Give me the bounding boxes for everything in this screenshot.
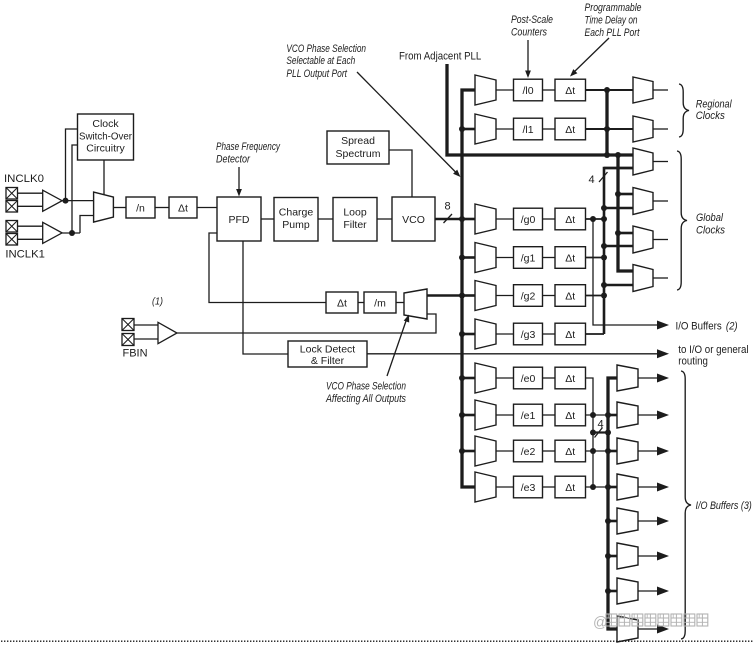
wire counter to delay e0 <box>543 377 556 379</box>
watermark juejin community <box>593 614 708 631</box>
node junction e1 bus <box>590 412 596 418</box>
annotation (1) <box>152 296 163 308</box>
wire counter to delay g0 <box>543 218 556 220</box>
node junction bridge e <box>605 430 611 436</box>
svg-text:/g2: /g2 <box>521 291 536 303</box>
wire global mux2 in a <box>618 193 633 196</box>
svg-text:Global: Global <box>696 212 723 224</box>
input pad INCLK1 p <box>6 221 18 233</box>
loop filter box <box>333 198 377 242</box>
annotation arrow to PFD <box>236 167 242 197</box>
svg-text:Clocks: Clocks <box>696 225 725 237</box>
delay dt-g3 box <box>555 323 586 345</box>
wire mux to counter e1 <box>496 414 514 416</box>
svg-text:Δt: Δt <box>337 298 347 310</box>
svg-text:I/O Buffers: I/O Buffers <box>676 320 723 332</box>
svg-text:4: 4 <box>598 419 604 431</box>
wire dt-l1 to regional mux <box>586 128 634 130</box>
mux global clock 1 <box>633 148 653 175</box>
label 8 phase taps <box>445 201 451 213</box>
arrow io buffer 2 <box>657 411 669 420</box>
svg-text:Post-Scale: Post-Scale <box>511 14 553 26</box>
wire mux to counter g3 <box>496 333 514 335</box>
mux regional clock 2 <box>633 116 653 142</box>
delay dt-g2 box <box>555 285 586 307</box>
wire INCLK1 tap to switch-over <box>72 145 78 233</box>
wire counter to delay l1 <box>543 128 556 130</box>
wire io bus to mux 7 <box>608 590 617 593</box>
wire io mux 5 out <box>638 520 657 522</box>
arrow io buffer 8 <box>657 625 669 634</box>
label I/O Buffers (2) <box>676 320 738 332</box>
bus width slash 8 <box>444 214 453 223</box>
spread spectrum box <box>327 131 389 164</box>
svg-text:Detector: Detector <box>216 154 251 166</box>
svg-text:/e0: /e0 <box>521 373 536 385</box>
svg-text:Phase Frequency: Phase Frequency <box>216 141 281 153</box>
counter /g1 box <box>514 247 543 269</box>
brace regional clocks <box>679 84 689 137</box>
net global 4-bus <box>604 168 633 334</box>
node junction io bus 3 <box>605 448 611 454</box>
svg-text:Circuitry: Circuitry <box>86 143 125 155</box>
wire input mux to /n <box>113 207 126 209</box>
mux io buffer 8 <box>617 616 638 642</box>
svg-text:/e2: /e2 <box>521 446 536 458</box>
wire bus to mux g0 <box>462 218 475 221</box>
delay dt-g1 box <box>555 247 586 269</box>
node junction io bus 7 <box>605 588 611 594</box>
node bus tap g3 <box>459 331 465 337</box>
wire global clock 3 out <box>653 239 668 241</box>
counter /e1 box <box>514 404 543 426</box>
wire global mux3 in a <box>618 232 633 235</box>
svg-text:/n: /n <box>136 203 145 215</box>
wire counter to delay g2 <box>543 295 556 297</box>
mux global clock 4 <box>633 265 653 292</box>
annotation VCO phase selection affecting all outputs <box>325 381 406 406</box>
svg-text:Pump: Pump <box>282 219 310 231</box>
mux io buffer 3 <box>617 438 638 464</box>
svg-text:Clock: Clock <box>92 118 119 130</box>
node junction e2 bus <box>590 448 596 454</box>
counter /l0 box <box>514 79 543 101</box>
svg-text:/m: /m <box>374 298 386 310</box>
label 4 e-section <box>598 419 604 431</box>
arrow io buffer 7 <box>657 587 669 596</box>
svg-text:Clocks: Clocks <box>696 110 725 122</box>
mux first-stage g1 <box>475 243 496 273</box>
mux global clock 3 <box>633 226 653 253</box>
mux first-stage e0 <box>475 363 496 393</box>
mux first-stage e1 <box>475 400 496 430</box>
brace io buffers 3 <box>681 371 691 639</box>
label 4 global <box>589 174 595 186</box>
wire io mux 8 out <box>638 628 657 630</box>
delay dt-e1 box <box>555 404 586 426</box>
svg-text:/g1: /g1 <box>521 253 536 265</box>
feedback pad FBIN p <box>122 319 134 331</box>
mux io buffer 7 <box>617 578 638 604</box>
wire io mux 4 out <box>638 486 657 488</box>
wire bus to mux g1 <box>462 256 475 259</box>
net e 4-bus <box>586 378 594 487</box>
svg-text:Δt: Δt <box>565 329 575 341</box>
svg-text:Spread: Spread <box>341 135 375 147</box>
wire feedback mux to /m <box>396 302 404 304</box>
wire switch-over to input mux select <box>103 160 105 195</box>
op-block PFD U1 <box>217 197 261 241</box>
brace global clocks <box>677 151 687 290</box>
mux regional clock 1 <box>633 77 653 103</box>
label Regional Clocks <box>696 99 732 123</box>
feedback mux <box>404 289 427 319</box>
svg-text:/e1: /e1 <box>521 410 536 422</box>
wire counter to delay e2 <box>543 450 556 452</box>
wire mux to counter g1 <box>496 257 514 259</box>
mux io buffer 1 <box>617 365 638 391</box>
node bus tap l1 <box>459 126 465 132</box>
svg-text:Counters: Counters <box>511 27 547 39</box>
label Global Clocks <box>696 212 725 237</box>
node bus tap g0 <box>459 216 465 222</box>
wire charge pump to loop filter <box>318 218 333 220</box>
arrow io buffer 5 <box>657 517 669 526</box>
wire bus to mux e2 <box>462 450 475 453</box>
counter /g0 box <box>514 208 543 230</box>
svg-text:Δt: Δt <box>565 373 575 385</box>
delay dt-e0 box <box>555 367 586 389</box>
delay dt-in box <box>169 197 197 218</box>
node junction l0 <box>604 87 610 93</box>
node junction bridge w <box>590 430 596 436</box>
node junction g2 4bus <box>601 293 607 299</box>
bus width slash 4 e-section <box>595 428 603 438</box>
svg-text:INCLK1: INCLK1 <box>5 249 45 261</box>
counter /e0 box <box>514 367 543 389</box>
svg-text:Loop: Loop <box>343 207 367 219</box>
svg-text:FBIN: FBIN <box>123 348 148 360</box>
wire mux to counter e3 <box>496 486 514 488</box>
svg-text:I/O Buffers (3): I/O Buffers (3) <box>696 500 753 512</box>
node FBIN label <box>123 348 148 360</box>
wire io bus to mux 3 <box>608 450 617 453</box>
node INCLK0 label <box>4 173 44 185</box>
node bus tap e2 <box>459 448 465 454</box>
charge pump box <box>274 198 318 242</box>
node junction g mux4b <box>601 282 607 288</box>
svg-text:Δt: Δt <box>565 410 575 422</box>
wire e bridge 4 <box>593 431 608 433</box>
svg-text:Selectable at Each: Selectable at Each <box>286 55 355 67</box>
mux global clock 2 <box>633 188 653 215</box>
wire PFD to charge pump <box>261 218 274 220</box>
wire lock detect to routing <box>367 353 657 355</box>
wire dt-e1 cross <box>586 414 618 416</box>
clock switch-over circuitry box <box>78 114 134 160</box>
node junction INCLK1 <box>69 230 75 236</box>
wire bus to mux l1 <box>462 128 475 131</box>
svg-text:to I/O or general: to I/O or general <box>678 344 748 356</box>
input pad INCLK0 p <box>6 188 18 200</box>
wire buffer INCLK0 to input mux <box>62 200 94 202</box>
delay dt-e2 box <box>555 440 586 462</box>
node junction io bus 4 <box>605 484 611 490</box>
svg-text:PFD: PFD <box>229 214 250 226</box>
svg-text:Δt: Δt <box>565 482 575 494</box>
wire counter to delay e3 <box>543 486 556 488</box>
node junction g mux2b <box>601 205 607 211</box>
wire dt-g0 to 4bus <box>586 218 605 220</box>
wire FBIN pad n to buffer <box>134 338 158 340</box>
wire /m to delta-t fb <box>358 302 364 304</box>
counter /n box <box>126 197 155 218</box>
arrow io buffers 2 <box>657 321 669 330</box>
wire dt-e2 cross <box>586 450 618 452</box>
net regional vertical <box>605 90 608 155</box>
wire io bus to mux 4 <box>608 486 617 489</box>
delay dt-l0 box <box>555 79 586 101</box>
svg-text:Δt: Δt <box>565 124 575 136</box>
svg-text:Δt: Δt <box>178 203 188 215</box>
annotation arrow to VCO bus <box>357 72 461 177</box>
mux first-stage l1 <box>475 114 496 144</box>
svg-text:From Adjacent PLL: From Adjacent PLL <box>399 50 481 62</box>
svg-text:Δt: Δt <box>565 291 575 303</box>
wire bus to feedback mux <box>427 294 462 297</box>
wire delta-t fb to PFD <box>209 233 326 303</box>
node bus tap g2 <box>459 293 465 299</box>
wire mux to counter g2 <box>496 295 514 297</box>
svg-text:Lock Detect: Lock Detect <box>300 344 356 356</box>
svg-text:INCLK0: INCLK0 <box>4 173 44 185</box>
wire global clock 1 out <box>653 161 668 163</box>
node junction io bus 5 <box>605 518 611 524</box>
wire loop filter to VCO <box>377 218 392 220</box>
wire pad INCLK0 n to buffer <box>18 205 43 207</box>
input mux <box>94 192 114 222</box>
annotation VCO phase selection selectable <box>286 43 366 80</box>
node INCLK1 label <box>5 249 45 261</box>
wire FBIN to feedback mux <box>177 314 436 333</box>
input pad INCLK0 n <box>6 201 18 213</box>
svg-text:PLL Output Port: PLL Output Port <box>286 68 347 80</box>
node junction regional adjacent <box>604 152 610 158</box>
mux first-stage e3 <box>475 472 496 502</box>
svg-text:Regional: Regional <box>696 99 732 111</box>
wire mux to counter e0 <box>496 377 514 379</box>
node junction g0 io tap <box>590 216 596 222</box>
wire io mux 6 out <box>638 555 657 557</box>
node junction l1 <box>604 126 610 132</box>
node bus tap e1 <box>459 412 465 418</box>
bus VCO 8 phases <box>462 90 475 487</box>
wire /n to delta-t <box>155 207 169 209</box>
bus width slash 4 global <box>599 172 608 182</box>
arrow to I/O or general routing <box>657 349 669 358</box>
svg-text:Δt: Δt <box>565 253 575 265</box>
wire delta-t to PFD <box>197 207 217 209</box>
mux io buffer 4 <box>617 474 638 500</box>
buffer INCLK1 <box>43 222 62 243</box>
svg-text:/g3: /g3 <box>521 329 536 341</box>
wire global clock 2 out <box>653 200 668 202</box>
svg-text:VCO Phase Selection: VCO Phase Selection <box>286 43 366 55</box>
svg-text:routing: routing <box>678 355 708 367</box>
node junction g mux3b <box>601 243 607 249</box>
svg-text:Affecting All Outputs: Affecting All Outputs <box>325 393 406 405</box>
svg-text:/e3: /e3 <box>521 482 536 494</box>
counter /l1 box <box>514 118 543 140</box>
wire io bus to mux 5 <box>608 520 617 523</box>
mux io buffer 6 <box>617 543 638 569</box>
wire io mux 7 out <box>638 590 657 592</box>
svg-text:Programmable: Programmable <box>585 2 642 14</box>
delay dt-fb box <box>326 292 358 313</box>
svg-text:Time Delay on: Time Delay on <box>585 15 638 27</box>
svg-text:Δt: Δt <box>565 446 575 458</box>
wire io mux 3 out <box>638 450 657 452</box>
counter /g3 box <box>514 323 543 345</box>
wire dt-g2 to 4bus <box>586 295 605 297</box>
bus from adjacent PLL <box>447 64 633 155</box>
counter /e3 box <box>514 476 543 498</box>
wire io bus to mux 2 <box>608 414 617 417</box>
svg-text:Switch-Over: Switch-Over <box>79 131 132 143</box>
wire dt-g1 to 4bus <box>586 257 605 259</box>
wire counter to delay e1 <box>543 414 556 416</box>
annotation arrow to /l0 <box>525 40 531 78</box>
wire buffer INCLK1 to step <box>62 232 80 234</box>
wire INCLK0 tap to switch-over <box>66 129 79 201</box>
label to I/O or general routing <box>678 344 748 368</box>
svg-text:(2): (2) <box>726 320 738 332</box>
svg-text:Δt: Δt <box>565 214 575 226</box>
node junction e3 bus <box>590 484 596 490</box>
svg-text:8: 8 <box>445 201 451 213</box>
wire regional clock 1 out <box>653 89 668 91</box>
svg-text:(1): (1) <box>152 296 163 308</box>
wire io mux 1 out <box>638 377 657 379</box>
mux first-stage l0 <box>475 75 496 105</box>
mux first-stage g0 <box>475 204 496 234</box>
feedback pad FBIN n <box>122 334 134 346</box>
mux io buffer 5 <box>617 508 638 534</box>
delay dt-g0 box <box>555 208 586 230</box>
svg-text:Spectrum: Spectrum <box>336 148 381 160</box>
wire counter to delay g1 <box>543 257 556 259</box>
oscillator VCO box <box>392 197 435 241</box>
annotation arrow to dt /l0 <box>570 38 609 77</box>
wire global mux4 in b <box>604 284 633 287</box>
wire PFD to lock detect <box>243 241 288 354</box>
wire pad INCLK1 n to buffer <box>18 238 43 240</box>
wire pad INCLK1 p to buffer <box>18 225 43 227</box>
wire dt-g3 to 4bus <box>586 333 605 335</box>
label From Adjacent PLL <box>399 50 481 62</box>
node junction g mux3a <box>615 230 621 236</box>
svg-text:VCO: VCO <box>402 214 425 226</box>
node junction io bus 6 <box>605 553 611 559</box>
buffer INCLK0 <box>43 190 62 211</box>
node junction g1 4bus <box>601 255 607 261</box>
wire dt-l0 to regional mux <box>586 89 634 91</box>
svg-text:Δt: Δt <box>565 85 575 97</box>
node junction g0 4bus <box>601 216 607 222</box>
node junction INCLK0 <box>63 198 69 204</box>
wire global mux1 in b <box>604 167 633 170</box>
wire global mux2 in b <box>604 207 633 210</box>
arrow io buffer 3 <box>657 447 669 456</box>
wire io mux 2 out <box>638 414 657 416</box>
arrow io buffer 1 <box>657 374 669 383</box>
svg-text:& Filter: & Filter <box>311 355 345 367</box>
wire global clock 4 out <box>653 277 668 279</box>
annotation Post-Scale Counters <box>511 14 553 39</box>
node junction io bus 2 <box>605 412 611 418</box>
delay dt-l1 box <box>555 118 586 140</box>
lock detect and filter box <box>288 341 367 367</box>
wire io bus to mux 6 <box>608 555 617 558</box>
mux first-stage g2 <box>475 281 496 311</box>
wire INCLK1 step into mux <box>80 216 94 234</box>
node junction adjacent to global <box>615 152 621 158</box>
annotation Programmable Time Delay <box>585 2 642 39</box>
mux first-stage e2 <box>475 436 496 466</box>
node junction g mux2a <box>615 191 621 197</box>
input pad INCLK1 n <box>6 234 18 246</box>
wire mux to counter g0 <box>496 218 514 220</box>
dotted page border <box>1 641 752 642</box>
net global adjacent vertical <box>618 155 633 271</box>
wire g0 to io buffers <box>593 219 657 325</box>
mux io buffer 2 <box>617 402 638 428</box>
wire VCO output to bus <box>435 218 462 221</box>
wire spread spectrum to VCO <box>389 150 412 197</box>
arrow io buffer 4 <box>657 483 669 492</box>
wire bus to mux g3 <box>462 333 475 336</box>
wire global mux3 in b <box>604 245 633 248</box>
annotation arrow to feedback mux <box>387 315 409 377</box>
wire bus to mux g2 <box>462 294 475 297</box>
counter /e2 box <box>514 440 543 462</box>
wire regional clock 2 out <box>653 128 668 130</box>
node bus tap e0 <box>459 375 465 381</box>
counter /g2 box <box>514 285 543 307</box>
wire bus to mux e0 <box>462 377 475 380</box>
label I/O Buffers (3) <box>696 500 753 512</box>
annotation Phase Frequency Detector <box>216 141 281 166</box>
svg-text:/l0: /l0 <box>522 85 533 97</box>
svg-text:Filter: Filter <box>343 219 367 231</box>
wire counter to delay g3 <box>543 333 556 335</box>
buffer FBIN <box>158 322 177 343</box>
arrow io buffer 6 <box>657 552 669 561</box>
wire mux to counter l1 <box>496 128 514 130</box>
wire FBIN pad p to buffer <box>134 324 158 326</box>
svg-text:/g0: /g0 <box>521 214 536 226</box>
wire mux to counter e2 <box>496 450 514 452</box>
svg-text:/l1: /l1 <box>522 124 533 136</box>
svg-text:Each PLL Port: Each PLL Port <box>585 27 641 39</box>
wire pad INCLK0 p to buffer <box>18 192 43 194</box>
mux first-stage g3 <box>475 319 496 349</box>
wire bus to mux e1 <box>462 414 475 417</box>
wire dt-e3 cross <box>586 486 618 488</box>
counter /m box <box>364 292 396 313</box>
node bus tap g1 <box>459 255 465 261</box>
wire counter to delay l0 <box>543 89 556 91</box>
